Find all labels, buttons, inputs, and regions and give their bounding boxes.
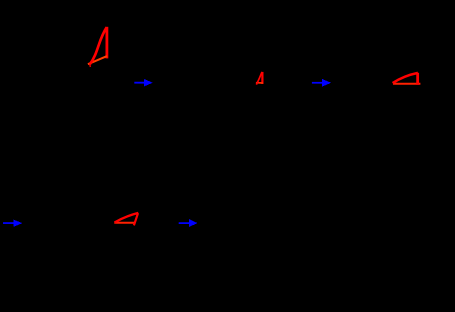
reaction arrow A1: shaft: [134, 79, 153, 87]
reaction arrow A4: head: [189, 219, 197, 227]
heat symbol D4 (flat left-pointing delta, bottom-left): bottom bar: [114, 213, 138, 226]
heat symbol D3: top diagonal: [393, 73, 418, 83]
heat symbol D1: bottom bar: [88, 56, 107, 64]
reaction arrow A4: shaft: [179, 219, 198, 227]
heat symbol D4: right stem (slanted): [134, 213, 138, 225]
reaction arrow A2: shaft: [312, 79, 331, 87]
heat symbol D2: left diagonal: [256, 72, 262, 85]
heat symbol D2 (small delta, middle): right stem: [256, 72, 263, 85]
reaction arrow A2: head: [322, 79, 331, 87]
heat symbol D1: tail stroke at tip: [89, 64, 92, 67]
heat symbol D3 (flat left-pointing delta, right): bottom bar: [393, 73, 421, 85]
heat symbol D1: left diagonal: [90, 27, 107, 64]
heat symbol D4: top diagonal: [115, 213, 139, 223]
reaction arrow A1: head: [144, 79, 153, 87]
heat symbol D2: bottom bar: [256, 82, 263, 84]
heat symbol D1 (tall slanted delta, top-left): right stem: [88, 27, 107, 67]
heat symbol D3: right stem: [416, 73, 419, 85]
reaction arrow A3: head: [13, 220, 22, 227]
reaction arrow A3 (left edge): shaft: [3, 220, 22, 227]
